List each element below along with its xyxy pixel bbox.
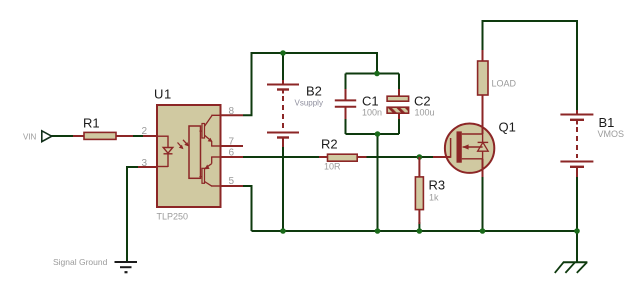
svg-text:5: 5 [229, 176, 235, 187]
svg-text:8: 8 [229, 106, 235, 117]
junction node top rail / B2+ [280, 50, 286, 56]
junction node gate / R2-R3 [417, 154, 423, 160]
svg-text:B2: B2 [306, 84, 322, 99]
U1 output transistor Q lower (PNP) [199, 157, 212, 186]
wire U1 pin 3 to signal ground [127, 167, 139, 261]
junction node B2- on ground bus [280, 228, 286, 234]
wire top rail to B2 positive [282, 53, 284, 80]
wire R2 to gate node [366, 156, 433, 158]
svg-text:3: 3 [141, 158, 147, 169]
wire C1-C2 bottom bus [346, 133, 400, 135]
svg-text:R2: R2 [321, 137, 338, 152]
svg-text:Vsupply: Vsupply [295, 99, 323, 108]
svg-text:R3: R3 [429, 178, 446, 193]
wire bottom ground bus [252, 230, 578, 232]
wire U1 pin 5 to ground bus [243, 186, 252, 231]
wire C bus down to ground bus [377, 134, 379, 231]
wire U1 pin 6 to R2 [243, 156, 320, 158]
svg-text:U1: U1 [154, 87, 172, 102]
wire C1-C2 top bus [346, 73, 400, 75]
resistor R3 [415, 157, 423, 224]
svg-text:100u: 100u [415, 108, 435, 118]
ground (chassis ground, power side) [555, 262, 588, 273]
junction node C1-C2 bottom [375, 131, 381, 137]
svg-text:R1: R1 [83, 116, 100, 131]
junction node C bus on ground bus [375, 228, 381, 234]
input terminal VIN arrow [42, 131, 52, 142]
wire R3 bottom to ground bus [418, 222, 420, 231]
U1 internal LED [163, 136, 173, 168]
wire C1 bottom lead [345, 119, 347, 134]
U1 pin 6 [211, 156, 243, 158]
resistor LOAD [478, 50, 488, 112]
svg-text:100n: 100n [362, 108, 382, 118]
U1 LED emission arrows [178, 140, 190, 149]
battery B1 [560, 110, 593, 177]
battery B2 [267, 80, 299, 147]
svg-text:1k: 1k [429, 193, 439, 203]
wire C2 bottom lead [398, 119, 400, 134]
svg-text:TLP250: TLP250 [157, 212, 189, 222]
wire C2 top lead [398, 74, 400, 90]
resistor R2 [319, 154, 367, 161]
ground (signal ground bar symbol) [115, 262, 138, 272]
svg-text:Signal Ground: Signal Ground [53, 257, 108, 267]
wire top right rail (LOAD to B1) [483, 21, 578, 110]
svg-text:7: 7 [229, 137, 235, 148]
U1 output transistor Q upper (NPN) [199, 116, 212, 146]
U1 pin 2 [143, 135, 168, 137]
svg-text:C1: C1 [362, 94, 379, 109]
svg-text:LOAD: LOAD [492, 79, 517, 89]
wire Q1 source to ground bus [482, 176, 484, 231]
svg-text:C2: C2 [414, 94, 431, 109]
wire R1 to U1 pin 2 [131, 135, 143, 137]
svg-text:6: 6 [229, 148, 235, 159]
junction node B1- on ground bus [574, 228, 580, 234]
U1 photo receiver block [189, 126, 201, 178]
svg-text:VMOS: VMOS [598, 129, 625, 139]
wire B2 negative to ground bus [282, 146, 284, 231]
svg-text:VIN: VIN [23, 133, 37, 142]
resistor R1 [73, 132, 133, 139]
wire C1 top lead [345, 74, 347, 90]
U1 pin 5 [211, 185, 243, 187]
U1 pin 3 [138, 166, 168, 169]
U1 pin 8 [211, 114, 243, 116]
capacitor C1 [335, 89, 356, 119]
wire B1 negative down to chassis ground [576, 176, 578, 262]
svg-text:2: 2 [141, 126, 147, 137]
wire U1 pin 8 to Vsupply top rail [243, 53, 377, 115]
capacitor C2 [387, 89, 409, 119]
junction node R3 on ground bus [417, 228, 423, 234]
junction node C1-C2 top [374, 71, 380, 77]
op-amp U1 TLP250 body [157, 105, 221, 207]
transistor Q1 VMOS [433, 95, 494, 177]
svg-text:B1: B1 [599, 115, 615, 130]
wire VIN to R1 [51, 135, 75, 137]
junction node Q1 source on ground bus [480, 228, 486, 234]
svg-text:Q1: Q1 [499, 120, 516, 135]
U1 pin 7 (nc stub) [211, 145, 243, 147]
svg-text:10R: 10R [324, 162, 341, 172]
